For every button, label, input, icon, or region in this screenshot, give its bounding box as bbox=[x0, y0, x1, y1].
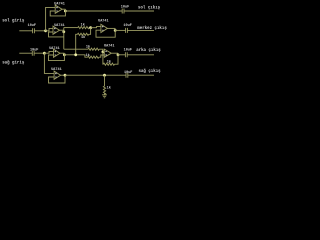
op-amp U1 (UA741) bbox=[54, 2, 65, 13]
wire sol output rail bbox=[65, 10, 122, 12]
node U3 output junction bbox=[114, 29, 117, 32]
wire R1 to node C bbox=[89, 27, 91, 29]
wire node C to U3 non-inverting input bbox=[91, 27, 101, 28]
svg-text:1k: 1k bbox=[86, 45, 90, 50]
capacitor C5 10uF arka cikis bbox=[124, 49, 154, 58]
node load tap junction bbox=[103, 74, 106, 77]
wire R2 left drop to U4 output rail bbox=[76, 34, 78, 55]
wire node L up to U1 non-inverting input bbox=[46, 7, 56, 30]
capacitor C2 10uF right input coupling bbox=[30, 49, 44, 56]
wire U4 feedback loop bbox=[49, 53, 65, 60]
svg-text:10uF: 10uF bbox=[123, 24, 131, 28]
wire U2 output stub bbox=[60, 29, 64, 31]
svg-text:UA741: UA741 bbox=[98, 20, 109, 24]
svg-text:10uF: 10uF bbox=[30, 49, 38, 53]
resistor R2 1k bbox=[78, 33, 89, 40]
wire R4 to U6 non-inverting input bbox=[99, 55, 105, 57]
resistor R1 1k bbox=[78, 22, 89, 28]
capacitor C1 10uF left input coupling bbox=[28, 24, 46, 33]
wire right input bbox=[19, 52, 32, 54]
wire U1 output stub bbox=[62, 8, 65, 10]
svg-text:1k: 1k bbox=[81, 22, 85, 27]
wire U2 net lead to R3 bbox=[64, 48, 88, 50]
svg-text:10uF: 10uF bbox=[124, 71, 132, 75]
wire U2 output riser R1 to R3 bbox=[63, 28, 65, 50]
resistor R4 1k to U6 non-inverting input bbox=[86, 53, 99, 59]
svg-text:10uF: 10uF bbox=[121, 6, 129, 10]
wire U6 output stub bbox=[111, 52, 118, 54]
svg-text:1k: 1k bbox=[107, 86, 111, 91]
wire U4 rail elbow down to R4 bbox=[85, 55, 88, 57]
capacitor C3 10uF sol cikis bbox=[121, 6, 154, 14]
node C junction bbox=[89, 26, 92, 29]
node R junction bbox=[43, 52, 46, 55]
wire U5 output stub bbox=[61, 74, 65, 76]
svg-text:sağ çıkış: sağ çıkış bbox=[139, 69, 162, 74]
wire R6 to ground bbox=[104, 93, 106, 94]
svg-text:1k: 1k bbox=[86, 53, 90, 58]
node U5 output junction bbox=[64, 74, 67, 77]
svg-text:UA741: UA741 bbox=[49, 47, 60, 51]
node U1 output junction bbox=[64, 10, 67, 13]
node U6 inverting input junction bbox=[102, 51, 105, 54]
op-amp U5 (UA741) bbox=[51, 68, 62, 79]
wire U6 output to cap bbox=[118, 54, 125, 56]
wire U4 output stub bbox=[60, 52, 64, 54]
op-amp U3 (UA741) bbox=[98, 20, 109, 33]
ground bbox=[102, 95, 107, 98]
wire merkez output rail bbox=[115, 29, 125, 31]
svg-text:UA741: UA741 bbox=[54, 2, 65, 6]
wire into U6 inverting input bbox=[103, 50, 104, 52]
capacitor C6 10uF sag cikis bbox=[124, 71, 154, 78]
svg-text:10uF: 10uF bbox=[28, 24, 36, 28]
wire R1 left lead bbox=[64, 27, 78, 29]
wire U3 output stub bbox=[107, 27, 115, 29]
svg-text:merkez çıkış: merkez çıkış bbox=[137, 26, 167, 31]
resistor R3 1k to U6 inverting input bbox=[86, 45, 99, 51]
wire R3 to U6 inverting node bbox=[99, 49, 103, 52]
wire R5 riser to U6 inverting node bbox=[102, 52, 104, 64]
node U2 output junction bbox=[62, 30, 65, 33]
wire U4 output rail bbox=[64, 54, 85, 56]
resistor R5 1k U6 feedback bbox=[103, 60, 114, 66]
svg-text:arka çıkış: arka çıkış bbox=[136, 48, 161, 53]
op-amp U2 (UA741) bbox=[53, 24, 65, 34]
wire node L to U2 non-inverting input bbox=[46, 28, 53, 30]
wire node R trunk down to U5 non-inverting input bbox=[44, 53, 54, 73]
svg-text:1k: 1k bbox=[81, 35, 85, 40]
svg-text:sağ giriş: sağ giriş bbox=[2, 60, 25, 65]
svg-text:10uF: 10uF bbox=[124, 49, 132, 53]
wire sag output rail bbox=[65, 74, 126, 76]
node U4 output junction bbox=[63, 53, 66, 56]
wire U1 feedback loop bbox=[50, 9, 65, 16]
node R2 tap junction bbox=[74, 53, 77, 56]
op-amp U4 (UA741) bbox=[49, 47, 60, 57]
svg-text:sol giriş: sol giriş bbox=[2, 18, 25, 23]
svg-text:UA741: UA741 bbox=[51, 68, 62, 72]
svg-text:UA741: UA741 bbox=[104, 45, 115, 49]
wire left input bbox=[19, 30, 32, 32]
wire U2 feedback loop bbox=[49, 32, 64, 37]
wire U6 feedback drop bbox=[115, 53, 119, 64]
wire U3 feedback loop bbox=[96, 28, 115, 37]
svg-text:sol çıkış: sol çıkış bbox=[138, 6, 161, 11]
svg-text:UA741: UA741 bbox=[54, 24, 65, 28]
wire U5 feedback loop bbox=[49, 75, 66, 83]
svg-text:1k: 1k bbox=[107, 60, 111, 65]
node U6 output junction bbox=[117, 53, 120, 56]
wire R2 right riser to node C bbox=[89, 28, 91, 35]
capacitor C4 10uF merkez cikis bbox=[123, 24, 154, 33]
wire down to R6 bbox=[104, 75, 106, 86]
op-amp U6 (UA741) bbox=[104, 45, 115, 58]
resistor R6 1k load to ground bbox=[103, 86, 110, 95]
wire node R to U4 non-inverting input bbox=[44, 51, 53, 53]
node L junction bbox=[44, 29, 47, 32]
